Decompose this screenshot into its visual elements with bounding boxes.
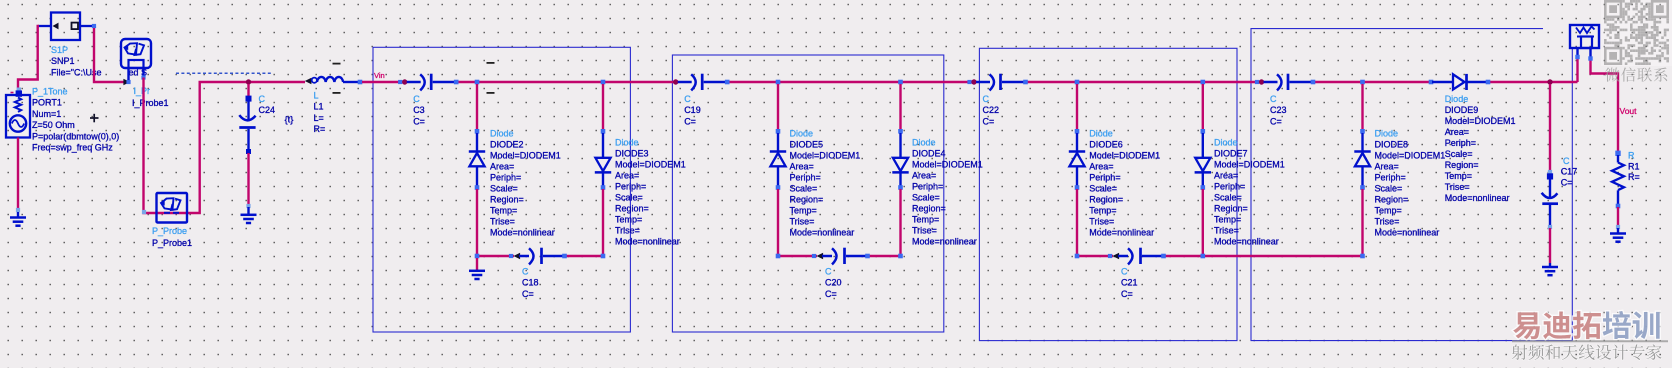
svg-text:PORT1: PORT1 — [32, 98, 62, 108]
svg-text:C=: C= — [1270, 116, 1282, 126]
svg-text:Trise=: Trise= — [490, 216, 515, 226]
svg-text:Scale=: Scale= — [1445, 149, 1473, 159]
svg-text:R=: R= — [1628, 172, 1640, 182]
svg-text:Model=DIODEM1: Model=DIODEM1 — [1445, 116, 1516, 126]
svg-text:Region=: Region= — [490, 194, 524, 204]
svg-text:Trise=: Trise= — [1089, 216, 1114, 226]
svg-text:Diode: Diode — [1445, 94, 1469, 104]
svg-text:C: C — [684, 94, 691, 104]
svg-text:Freq=swp_freq GHz: Freq=swp_freq GHz — [32, 143, 113, 153]
svg-text:Region=: Region= — [1375, 194, 1409, 204]
svg-text:Mode=nonlinear: Mode=nonlinear — [912, 237, 977, 247]
svg-text:Area=: Area= — [1089, 161, 1113, 171]
svg-text:I_Probe1: I_Probe1 — [132, 98, 169, 108]
svg-text:C=: C= — [522, 289, 534, 299]
svg-text:Diode: Diode — [1089, 128, 1113, 138]
svg-text:Trise=: Trise= — [790, 216, 815, 226]
svg-text:C3: C3 — [413, 105, 425, 115]
svg-text:Periph=: Periph= — [490, 172, 521, 182]
svg-text:C: C — [413, 94, 420, 104]
svg-text:C=: C= — [1121, 289, 1133, 299]
svg-text:Diode: Diode — [490, 128, 514, 138]
svg-text:Model=DIODEM1: Model=DIODEM1 — [490, 150, 561, 160]
svg-text:Trise=: Trise= — [912, 226, 937, 236]
svg-text:Temp=: Temp= — [1375, 205, 1402, 215]
svg-text:Trise=: Trise= — [1375, 216, 1400, 226]
svg-text:C20: C20 — [825, 278, 842, 288]
svg-text:Area=: Area= — [1375, 161, 1399, 171]
svg-text:DIODE2: DIODE2 — [490, 139, 524, 149]
svg-text:Region=: Region= — [1089, 194, 1123, 204]
svg-text:Mode=nonlinear: Mode=nonlinear — [1214, 237, 1279, 247]
svg-text:C=: C= — [413, 116, 425, 126]
svg-text:Temp=: Temp= — [1089, 205, 1116, 215]
svg-text:Area=: Area= — [490, 161, 514, 171]
svg-text:DIODE4: DIODE4 — [912, 149, 946, 159]
svg-text:Area=: Area= — [1445, 127, 1469, 137]
svg-text:DIODE5: DIODE5 — [790, 139, 824, 149]
svg-text:Model=DIODEM1: Model=DIODEM1 — [1089, 150, 1160, 160]
svg-text:L1: L1 — [314, 102, 324, 112]
svg-text:P_Probe: P_Probe — [152, 226, 187, 236]
svg-text:Periph=: Periph= — [912, 182, 943, 192]
svg-text:Periph=: Periph= — [790, 172, 821, 182]
svg-text:Scale=: Scale= — [790, 183, 818, 193]
svg-text:Model=DIODEM1: Model=DIODEM1 — [912, 160, 983, 170]
svg-text:DIODE3: DIODE3 — [615, 149, 649, 159]
svg-text:Temp=: Temp= — [912, 215, 939, 225]
svg-text:Diode: Diode — [1214, 138, 1238, 148]
svg-text:Scale=: Scale= — [1089, 183, 1117, 193]
svg-text:L: L — [314, 90, 319, 100]
svg-text:Temp=: Temp= — [490, 205, 517, 215]
svg-text:Region=: Region= — [615, 204, 649, 214]
svg-text:C=: C= — [825, 289, 837, 299]
svg-text:DIODE8: DIODE8 — [1375, 139, 1409, 149]
svg-text:{t}: {t} — [285, 114, 294, 125]
svg-text:Diode: Diode — [790, 128, 814, 138]
svg-text:Temp=: Temp= — [1445, 171, 1472, 181]
svg-text:R: R — [1628, 150, 1635, 160]
svg-text:Mode=nonlinear: Mode=nonlinear — [615, 237, 680, 247]
svg-text:DIODE7: DIODE7 — [1214, 149, 1248, 159]
svg-text:Region=: Region= — [1445, 160, 1479, 170]
svg-text:Region=: Region= — [1214, 204, 1248, 214]
svg-text:SNP1: SNP1 — [51, 56, 75, 66]
svg-text:Mode=nonlinear: Mode=nonlinear — [1375, 227, 1440, 237]
svg-text:Model=DIODEM1: Model=DIODEM1 — [1214, 160, 1285, 170]
svg-text:Model=DIODEM1: Model=DIODEM1 — [1375, 150, 1446, 160]
svg-text:Vout: Vout — [1620, 106, 1638, 116]
svg-text:C24: C24 — [259, 105, 276, 115]
svg-text:Scale=: Scale= — [1214, 193, 1242, 203]
svg-text:C: C — [983, 94, 990, 104]
svg-text:Mode=nonlinear: Mode=nonlinear — [790, 227, 855, 237]
svg-text:DIODE9: DIODE9 — [1445, 105, 1479, 115]
svg-text:S1P: S1P — [51, 45, 68, 55]
svg-text:Diode: Diode — [1375, 128, 1399, 138]
svg-text:C21: C21 — [1121, 278, 1138, 288]
svg-text:Scale=: Scale= — [615, 193, 643, 203]
svg-text:Temp=: Temp= — [790, 205, 817, 215]
svg-text:Trise=: Trise= — [1214, 226, 1239, 236]
svg-text:C23: C23 — [1270, 105, 1287, 115]
svg-text:R1: R1 — [1628, 162, 1640, 172]
svg-text:Periph=: Periph= — [1445, 138, 1476, 148]
svg-text:Trise=: Trise= — [1445, 182, 1470, 192]
svg-text:C: C — [825, 266, 832, 276]
svg-text:Model=DIODEM1: Model=DIODEM1 — [615, 160, 686, 170]
svg-text:Num=1: Num=1 — [32, 109, 61, 119]
svg-text:Temp=: Temp= — [1214, 215, 1241, 225]
svg-text:C: C — [1270, 94, 1277, 104]
svg-text:Scale=: Scale= — [490, 183, 518, 193]
svg-text:Periph=: Periph= — [1375, 172, 1406, 182]
svg-text:C: C — [1563, 156, 1570, 166]
svg-text:C: C — [522, 266, 529, 276]
svg-text:P_1Tone: P_1Tone — [32, 86, 68, 96]
svg-text:Area=: Area= — [790, 161, 814, 171]
svg-text:Diode: Diode — [615, 138, 639, 148]
svg-text:Area=: Area= — [1214, 171, 1238, 181]
svg-text:L=: L= — [314, 113, 324, 123]
svg-text:C22: C22 — [983, 105, 1000, 115]
svg-text:Trise=: Trise= — [615, 226, 640, 236]
svg-text:Mode=nonlinear: Mode=nonlinear — [490, 227, 555, 237]
svg-text:C=: C= — [983, 116, 995, 126]
svg-text:P=polar(dbmtow(0),0): P=polar(dbmtow(0),0) — [32, 131, 119, 141]
svg-text:Periph=: Periph= — [615, 182, 646, 192]
svg-text:Mode=nonlinear: Mode=nonlinear — [1089, 227, 1154, 237]
svg-text:Region=: Region= — [790, 194, 824, 204]
svg-text:DIODE6: DIODE6 — [1089, 139, 1123, 149]
svg-text:C17: C17 — [1561, 167, 1578, 177]
svg-text:C: C — [1121, 266, 1128, 276]
svg-text:Scale=: Scale= — [1375, 183, 1403, 193]
svg-text:Vin: Vin — [374, 71, 385, 80]
svg-text:Diode: Diode — [912, 138, 936, 148]
svg-text:I_Pr: I_Pr — [134, 86, 151, 96]
svg-text:C19: C19 — [684, 105, 701, 115]
svg-text:C18: C18 — [522, 278, 539, 288]
svg-text:C: C — [259, 94, 266, 104]
svg-text:Periph=: Periph= — [1214, 182, 1245, 192]
svg-text:Z=50 Ohm: Z=50 Ohm — [32, 120, 75, 130]
svg-text:Model=DIODEM1: Model=DIODEM1 — [790, 150, 861, 160]
svg-text:Area=: Area= — [615, 171, 639, 181]
svg-text:P_Probe1: P_Probe1 — [152, 238, 192, 248]
svg-text:C=: C= — [684, 116, 696, 126]
svg-text:Region=: Region= — [912, 204, 946, 214]
svg-text:Mode=nonlinear: Mode=nonlinear — [1445, 193, 1510, 203]
svg-text:Scale=: Scale= — [912, 193, 940, 203]
svg-text:C=: C= — [1561, 177, 1573, 187]
svg-text:R=: R= — [314, 124, 326, 134]
svg-text:Periph=: Periph= — [1089, 172, 1120, 182]
svg-text:Area=: Area= — [912, 171, 936, 181]
svg-text:Temp=: Temp= — [615, 215, 642, 225]
